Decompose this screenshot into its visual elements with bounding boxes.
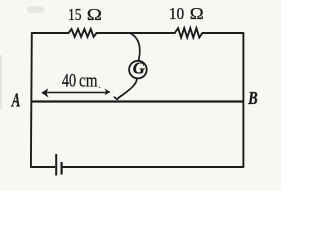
svg-text:A: A <box>11 89 20 111</box>
svg-text:G: G <box>133 59 145 78</box>
svg-text:Ω: Ω <box>87 5 102 24</box>
svg-text:cm: cm <box>79 70 98 91</box>
svg-text:B: B <box>247 87 258 108</box>
svg-text:Ω: Ω <box>190 4 204 23</box>
svg-text:40: 40 <box>62 70 76 91</box>
svg-text:10: 10 <box>169 6 184 24</box>
svg-text:15: 15 <box>68 5 82 24</box>
